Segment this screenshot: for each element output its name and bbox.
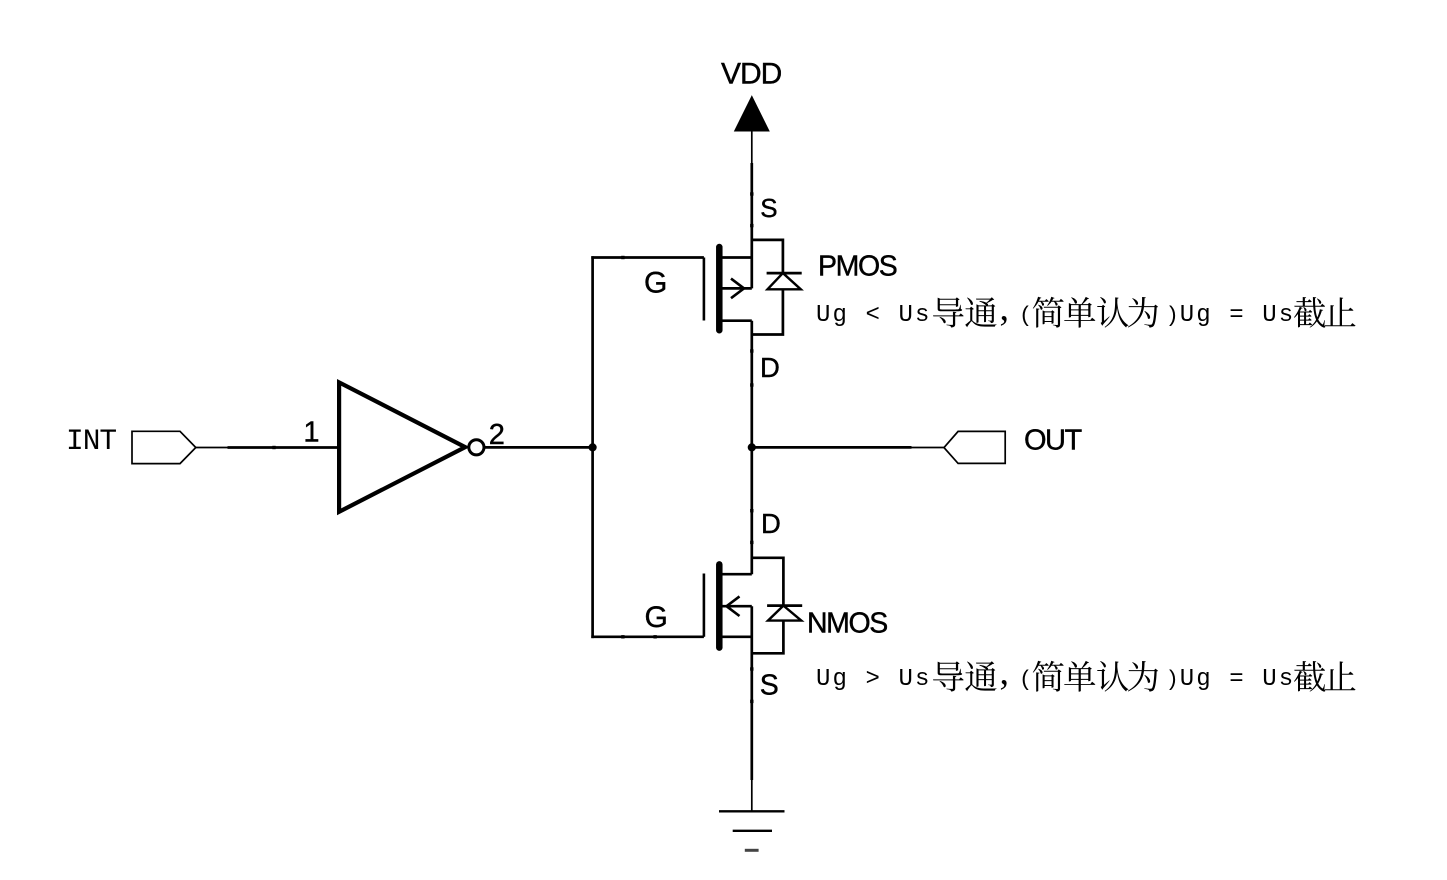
svg-text:Ug = Us: Ug = Us bbox=[1180, 302, 1296, 329]
svg-text:Ug < Us: Ug < Us bbox=[816, 302, 932, 329]
svg-text:NMOS: NMOS bbox=[807, 608, 887, 640]
svg-text:(: ( bbox=[1021, 301, 1029, 326]
svg-text:S: S bbox=[760, 670, 779, 702]
svg-text:VDD: VDD bbox=[721, 58, 782, 91]
CJK glyph 为 bbox=[1128, 661, 1158, 692]
svg-text:Ug > Us: Ug > Us bbox=[816, 666, 932, 693]
CJK glyph 通 bbox=[965, 297, 996, 327]
junction dot at gate bus bbox=[589, 443, 597, 451]
svg-text:1: 1 bbox=[303, 416, 319, 448]
svg-text:,: , bbox=[1000, 287, 1010, 329]
svg-text:D: D bbox=[761, 508, 781, 539]
svg-text:OUT: OUT bbox=[1024, 425, 1083, 457]
wire INT connector to inverter input bbox=[196, 447, 228, 449]
CJK glyph 导 bbox=[933, 297, 964, 327]
CJK glyph 简 bbox=[1033, 661, 1064, 692]
svg-text:): ) bbox=[1169, 301, 1177, 326]
CJK glyph 单 bbox=[1064, 297, 1095, 328]
CJK glyph 通 bbox=[965, 661, 996, 691]
power symbol VDD bbox=[735, 96, 769, 163]
transistor PMOS Q1 bbox=[704, 247, 752, 330]
wire end tick marks bbox=[272, 192, 753, 703]
inverter U1 output bubble bbox=[469, 440, 484, 455]
svg-text:,: , bbox=[1000, 651, 1010, 693]
transistor NMOS Q2 bbox=[704, 564, 752, 647]
CJK glyph 止 bbox=[1325, 297, 1356, 326]
body diode of NMOS bbox=[752, 558, 802, 654]
wire PMOS drain down to NMOS drain bbox=[750, 321, 753, 575]
svg-text:PMOS: PMOS bbox=[818, 251, 897, 283]
CJK glyph 截 bbox=[1294, 661, 1325, 692]
CJK glyph 为 bbox=[1128, 297, 1158, 328]
wire gate bus vertical bbox=[591, 256, 594, 638]
svg-text:INT: INT bbox=[66, 424, 116, 458]
svg-text:(: ( bbox=[1021, 665, 1029, 690]
input connector INT bbox=[132, 431, 196, 463]
body diode of PMOS bbox=[752, 240, 802, 335]
CJK glyph 单 bbox=[1064, 661, 1095, 692]
output connector OUT bbox=[944, 431, 1005, 463]
wire VDD to PMOS source bbox=[750, 163, 753, 288]
CJK glyph 简 bbox=[1033, 297, 1064, 328]
svg-text:G: G bbox=[645, 601, 668, 634]
wire bus to NMOS gate bbox=[591, 635, 704, 638]
CJK glyph 止 bbox=[1325, 661, 1356, 690]
inverter U1 triangle bbox=[339, 382, 465, 511]
svg-text:G: G bbox=[644, 267, 667, 300]
svg-text:): ) bbox=[1169, 665, 1177, 690]
ground symbol GND bbox=[719, 811, 785, 850]
wire NMOS source to ground bbox=[750, 606, 753, 780]
svg-text:S: S bbox=[760, 193, 777, 223]
wire OUT node to connector bbox=[752, 446, 912, 449]
CJK glyph 认 bbox=[1097, 661, 1128, 692]
CJK glyph 截 bbox=[1294, 297, 1325, 328]
svg-text:Ug = Us: Ug = Us bbox=[1180, 666, 1296, 693]
CJK glyph 导 bbox=[933, 661, 964, 691]
junction dot at OUT node bbox=[748, 443, 756, 451]
wire inverter output to gate bus bbox=[484, 446, 593, 449]
wire bus to PMOS gate bbox=[591, 256, 704, 259]
svg-text:D: D bbox=[760, 352, 780, 383]
CJK glyph 认 bbox=[1097, 297, 1128, 328]
